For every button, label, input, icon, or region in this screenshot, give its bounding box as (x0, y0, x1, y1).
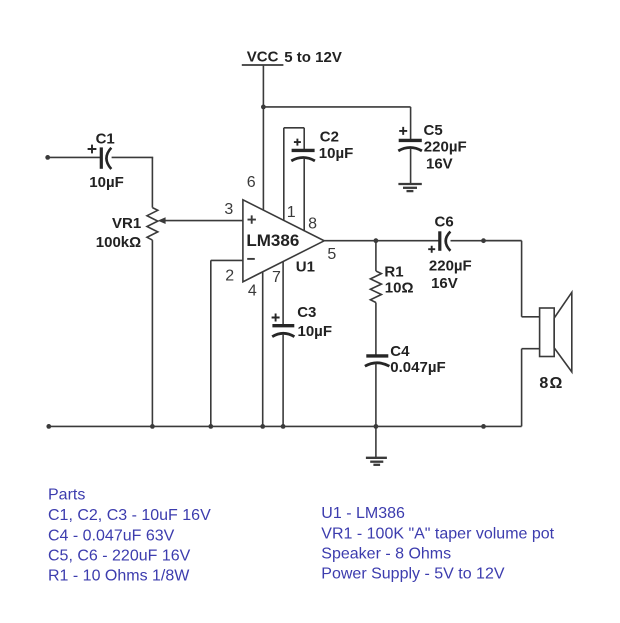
svg-text:C4: C4 (390, 343, 410, 360)
svg-text:R1: R1 (384, 264, 403, 281)
wire (521, 349, 523, 427)
wire pin 2 vertical (210, 260, 212, 426)
junction (150, 424, 155, 429)
wire pin 4 (262, 272, 264, 427)
svg-text:C6: C6 (435, 214, 454, 231)
svg-text:10Ω: 10Ω (385, 280, 414, 297)
svg-text:10µF: 10µF (298, 323, 333, 340)
junction (481, 424, 486, 429)
wire VCC to pin 6 (262, 66, 264, 211)
svg-text:1: 1 (287, 204, 296, 221)
capacitor C2 (291, 139, 315, 161)
wire speaker feed horizontal (484, 240, 522, 242)
capacitor C4 (365, 356, 390, 366)
speaker LS1 cone (554, 292, 572, 372)
svg-text:LM386: LM386 (246, 231, 299, 250)
wire (151, 157, 153, 207)
wire pin1 to pin8 top (284, 127, 304, 129)
svg-text:VR1: VR1 (112, 215, 141, 232)
svg-text:3: 3 (224, 201, 233, 218)
svg-text:0.047µF: 0.047µF (390, 359, 445, 376)
svg-text:U1 - LM386: U1 - LM386 (321, 505, 405, 522)
wire (48, 156, 100, 158)
U1 minus input marker (247, 258, 255, 260)
wire pin 2 horizontal (211, 259, 243, 261)
svg-text:C5: C5 (424, 122, 443, 139)
svg-text:10µF: 10µF (319, 145, 354, 162)
VCC terminal bar (242, 64, 284, 66)
svg-text:C5, C6 - 220uF 16V: C5, C6 - 220uF 16V (48, 547, 191, 564)
svg-text:4: 4 (248, 283, 257, 300)
potentiometer VR1 (147, 208, 166, 241)
node rail left terminal (46, 424, 51, 429)
resistor R1 (370, 271, 381, 303)
junction (261, 105, 266, 110)
svg-text:8Ω: 8Ω (539, 375, 563, 392)
svg-text:16V: 16V (426, 156, 453, 173)
U1 plus input marker (248, 215, 256, 223)
wire output pin 5 (324, 240, 438, 242)
svg-text:2: 2 (225, 267, 234, 284)
svg-text:VCC: VCC (247, 49, 279, 66)
wire pin3 from wiper (165, 220, 243, 222)
svg-text:C1, C2, C3 - 10uF 16V: C1, C2, C3 - 10uF 16V (48, 507, 211, 524)
wire speaker bottom terminal (522, 348, 540, 350)
wire (410, 149, 412, 184)
svg-text:C4 - 0.047uF 63V: C4 - 0.047uF 63V (48, 527, 175, 544)
junction (260, 424, 265, 429)
svg-text:Power Supply - 5V to 12V: Power Supply - 5V to 12V (321, 566, 505, 583)
svg-text:VR1 - 100K "A" taper volume po: VR1 - 100K "A" taper volume pot (321, 525, 554, 542)
svg-text:16V: 16V (431, 275, 458, 292)
svg-text:U1: U1 (296, 258, 315, 275)
wire (303, 128, 305, 150)
op-amp U1 (243, 200, 324, 282)
wire (375, 303, 377, 356)
wire ground rail (49, 425, 522, 427)
ground under C5 (398, 184, 421, 191)
junction (374, 238, 379, 243)
svg-text:220µF: 220µF (429, 258, 472, 275)
wire (112, 156, 154, 158)
capacitor C5 (398, 127, 422, 151)
speaker LS1 body (540, 308, 555, 357)
junction (481, 238, 486, 243)
capacitor C6 (428, 231, 450, 252)
wire (410, 107, 412, 140)
svg-text:5 to 12V: 5 to 12V (284, 49, 342, 66)
svg-text:5: 5 (327, 246, 336, 263)
wire speaker feed vertical (521, 241, 523, 317)
svg-text:Speaker - 8 Ohms: Speaker - 8 Ohms (321, 545, 451, 562)
wire speaker top terminal (522, 316, 540, 318)
junction (374, 424, 379, 429)
svg-text:Parts: Parts (48, 487, 85, 504)
svg-text:6: 6 (247, 174, 256, 191)
svg-text:8: 8 (308, 216, 317, 233)
svg-text:10µF: 10µF (89, 174, 124, 191)
wire VCC rail to C5 (263, 106, 410, 108)
capacitor C1 (88, 145, 112, 169)
wire pin 7 lower (282, 334, 284, 426)
capacitor C3 (272, 314, 295, 337)
wire (375, 364, 377, 458)
junction (208, 424, 213, 429)
wire (151, 240, 153, 426)
wire pin 8 (303, 159, 305, 232)
svg-text:7: 7 (272, 269, 281, 286)
svg-text:220µF: 220µF (424, 139, 467, 156)
ground at bottom rail (366, 458, 387, 465)
node input terminal (45, 155, 50, 160)
wire (451, 240, 522, 242)
svg-text:C1: C1 (96, 130, 115, 147)
svg-text:100kΩ: 100kΩ (96, 234, 141, 251)
svg-text:R1 - 10 Ohms 1/8W: R1 - 10 Ohms 1/8W (48, 567, 190, 584)
junction (281, 424, 286, 429)
svg-text:C3: C3 (297, 304, 316, 321)
wire pin 1 (283, 128, 285, 221)
wire pin 7 upper (282, 262, 284, 326)
svg-text:C2: C2 (320, 128, 339, 145)
wire R1 top (375, 241, 377, 271)
